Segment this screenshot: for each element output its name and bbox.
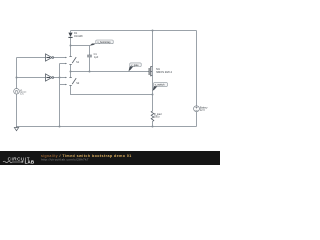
ground xyxy=(14,127,18,131)
svg-text:LAB: LAB xyxy=(25,160,35,165)
wire diode branch vertical xyxy=(70,31,72,78)
net flag v_gate xyxy=(129,63,142,72)
svg-text:1µF: 1µF xyxy=(94,56,99,59)
junction top rail / drain xyxy=(152,30,154,32)
wire S1 minus stub xyxy=(60,63,66,65)
wire bootstrap branch xyxy=(71,46,90,72)
junction cap / gate wire xyxy=(89,71,91,73)
net flag v_switch xyxy=(153,83,168,91)
svg-text:1N4148: 1N4148 xyxy=(74,35,83,38)
svg-text:NMOS 20/0.4: NMOS 20/0.4 xyxy=(156,70,172,74)
svg-text:12 V: 12 V xyxy=(200,109,205,112)
junction source net xyxy=(152,94,154,96)
svg-text:v_switch: v_switch xyxy=(155,84,165,87)
wire gate horizontal xyxy=(71,71,150,73)
wire ground rail xyxy=(17,126,197,128)
wire V1 vertical xyxy=(16,58,18,127)
footer bar xyxy=(0,151,220,165)
net flag v_bootstrap xyxy=(90,40,114,46)
battery V2 xyxy=(194,106,209,112)
switch S1 xyxy=(66,57,80,65)
diode D1 xyxy=(68,32,83,38)
wire buffer1 output xyxy=(54,57,66,59)
svg-text:v_bootstrap: v_bootstrap xyxy=(97,41,111,44)
wire top rail xyxy=(71,30,197,32)
wire switch bottom to source net xyxy=(71,86,153,95)
buffer U1 xyxy=(46,54,54,61)
junction ground / load xyxy=(152,126,154,128)
wire S2 minus stub xyxy=(60,84,66,86)
svg-text:100Ω: 100Ω xyxy=(154,116,160,119)
capacitor C1 xyxy=(87,53,99,59)
wire buffer1 input xyxy=(17,57,46,59)
wire drain vertical xyxy=(152,31,154,67)
wire buffer2 input xyxy=(17,77,46,79)
junction gate wire left xyxy=(70,71,72,73)
wire source vertical xyxy=(152,76,154,127)
junction ground / minus vertical xyxy=(59,126,61,128)
switch S2 xyxy=(66,77,80,86)
wire buffer2 output xyxy=(54,77,66,79)
svg-text:http://circuitlab.com/c/28h7k7: http://circuitlab.com/c/28h7k7 xyxy=(41,158,89,162)
logo squiggle xyxy=(3,161,22,163)
junction buffer2 output crossing xyxy=(59,77,61,79)
wire minus-control vertical xyxy=(59,64,61,127)
wire right vertical to battery xyxy=(196,31,198,127)
junction V1 / buffer2 input xyxy=(16,77,18,79)
source V1 xyxy=(14,89,27,96)
svg-text:v_gate: v_gate xyxy=(131,64,139,67)
buffer U2 xyxy=(46,74,54,81)
junction diode branch / bootstrap xyxy=(70,45,72,47)
resistor R_load xyxy=(151,111,162,122)
nmos M1 xyxy=(149,66,172,76)
